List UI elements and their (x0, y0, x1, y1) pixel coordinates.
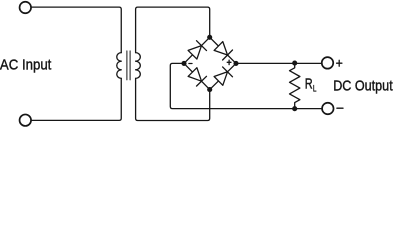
diode D4 (bottom node to right node) (210, 63, 236, 89)
AC input terminal bottom (20, 114, 32, 126)
DC output terminal minus (322, 103, 334, 115)
wire top-left: AC top terminal to transformer primary top (31, 7, 121, 53)
label plus at bridge right node (227, 60, 231, 65)
diode D1 (left node to top node) (184, 37, 210, 63)
node resistor bottom junction (292, 106, 297, 111)
label minus at bridge left node (189, 63, 192, 65)
transformer T1 secondary winding (136, 53, 141, 79)
DC output terminal plus (322, 57, 334, 69)
diode D3 (left node to bottom node) (184, 63, 210, 89)
wire secondary bottom to bridge bottom node (136, 78, 210, 120)
svg-text:L: L (313, 84, 317, 94)
svg-text:DC Output: DC Output (333, 76, 393, 93)
node resistor top junction (292, 61, 297, 66)
transformer T1 primary winding (117, 53, 122, 79)
AC input terminal top (20, 2, 32, 14)
resistor RL zigzag (290, 63, 300, 109)
label plus at DC output (337, 60, 342, 66)
wire bridge left node to bottom rail to DC minus terminal (170, 63, 322, 108)
node bridge top junction (207, 35, 212, 40)
wire bridge right node to DC plus terminal (236, 62, 322, 64)
node bridge bottom junction (207, 87, 212, 92)
node bridge right junction (plus) (233, 61, 238, 66)
diode D2 (top node to right node) (210, 37, 236, 63)
svg-text:R: R (305, 75, 313, 92)
label minus at DC output (337, 107, 343, 109)
transformer T1 core (127, 51, 130, 80)
node bridge left junction (minus) (181, 61, 186, 66)
wire secondary top to bridge top node (136, 7, 210, 53)
label RL (305, 75, 317, 94)
svg-text:AC Input: AC Input (0, 56, 51, 73)
wire bottom-left: AC bottom terminal to transformer primary bottom (31, 78, 121, 120)
